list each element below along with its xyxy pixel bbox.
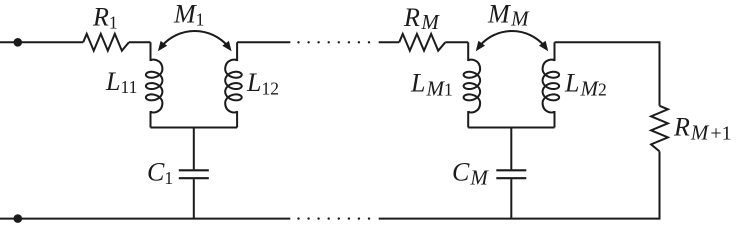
capacitor CM	[496, 169, 526, 171]
node top-left terminal dot	[13, 38, 22, 47]
resistor RM	[399, 34, 445, 51]
inductor L11	[146, 42, 163, 127]
wire RM to LM1 corner	[445, 41, 468, 43]
wire CM to bottom rail	[510, 179, 512, 218]
resistor R1	[83, 34, 129, 51]
inductor LM2	[543, 42, 560, 127]
wire R1 to L11 corner	[129, 41, 151, 43]
wire L11-L12 bottom connector	[151, 127, 238, 129]
wire RM+1 to bottom right corner	[379, 151, 660, 218]
wire LM2 top to right corner	[555, 42, 660, 106]
bottom dotted continuation	[297, 217, 370, 219]
wire L12 top to dots	[237, 41, 290, 43]
mutual inductance arrow M1	[162, 31, 227, 46]
mutual inductance arrow MM	[480, 31, 544, 46]
capacitor C1	[179, 169, 209, 171]
wire top-left lead	[0, 41, 83, 43]
node bottom-left terminal dot	[13, 214, 22, 223]
wire LM1-LM2 bottom connector	[468, 127, 554, 129]
top dotted continuation	[297, 41, 370, 43]
resistor RM+1	[651, 106, 668, 152]
wire junction to CM	[510, 128, 512, 170]
inductor L12	[225, 42, 242, 127]
wire C1 to bottom rail	[193, 179, 195, 218]
wire junction to C1	[193, 128, 195, 170]
wire bottom-left rail	[0, 218, 290, 220]
wire top dots to RM	[379, 41, 400, 43]
inductor LM1	[464, 42, 481, 127]
